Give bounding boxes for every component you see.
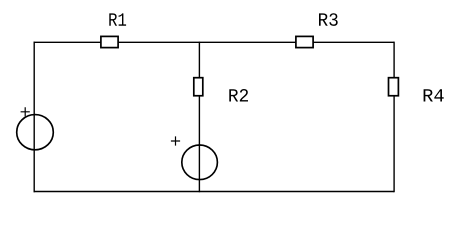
resistor R2 (194, 78, 203, 96)
wire middle branch (198, 42, 200, 193)
wire left branch (33, 42, 35, 193)
label R1 (109, 13, 126, 25)
wire top rail (34, 41, 395, 43)
resistor R3 (296, 36, 313, 47)
wire bottom rail (34, 191, 395, 193)
label R3 (319, 13, 338, 26)
voltage source V2 (182, 145, 218, 180)
resistor R1 (101, 36, 118, 47)
V2 plus sign (171, 136, 180, 145)
voltage source V1 (17, 115, 54, 150)
label R2 (229, 89, 248, 101)
resistor R4 (389, 78, 399, 96)
label R4 (424, 89, 444, 101)
wire right branch (393, 42, 395, 193)
V1 plus sign (21, 107, 30, 116)
